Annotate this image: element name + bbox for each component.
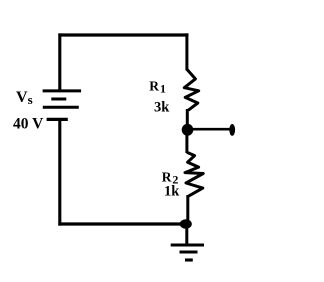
wire right vertical upper [185, 33, 188, 70]
ground bar bottom [185, 258, 193, 261]
node output junction [182, 124, 194, 136]
svg-text:40 V: 40 V [13, 115, 44, 132]
wire R1 to node [186, 109, 189, 131]
wire top horizontal [58, 33, 188, 36]
ground bar top [171, 243, 204, 246]
wire left vertical lower [58, 121, 61, 226]
svg-text:Vs: Vs [16, 89, 33, 107]
wire bottom horizontal [58, 222, 186, 225]
terminal output [229, 124, 235, 136]
resistor R2 [185, 152, 203, 196]
wire node to R2 [185, 129, 188, 153]
ground bar middle [180, 251, 198, 254]
battery VS plate short upper [51, 98, 66, 101]
battery VS plate long top [43, 89, 82, 92]
svg-text:R1: R1 [149, 78, 166, 95]
wire node to ground [185, 224, 188, 246]
battery VS plate short bottom [47, 118, 68, 121]
wire left vertical upper [58, 33, 61, 90]
battery VS plate long lower [43, 106, 79, 109]
node bottom junction [180, 219, 192, 229]
svg-text:1k: 1k [164, 184, 180, 200]
wire R2 to bottom node [186, 195, 189, 224]
resistor R1 [184, 69, 198, 110]
svg-text:3k: 3k [154, 100, 170, 116]
wire output horizontal [188, 128, 231, 131]
